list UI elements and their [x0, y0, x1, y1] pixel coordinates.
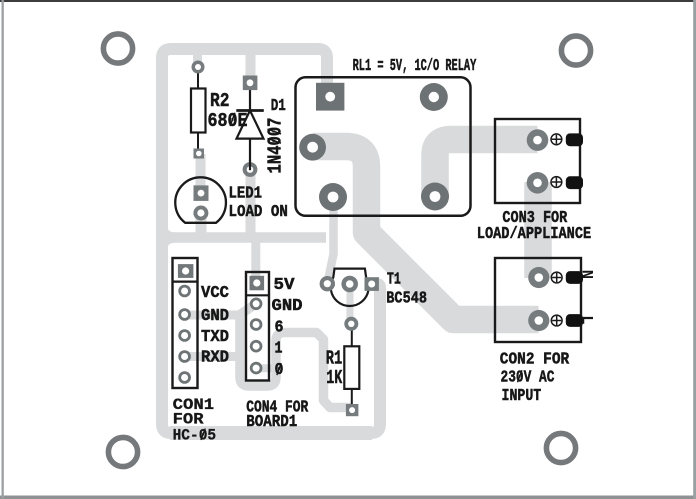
pad CON1 pin1 square	[173, 264, 198, 282]
wire: CON4 GND down around to R1 bottom pad	[240, 304, 351, 408]
pad relay mid-left COM	[299, 134, 326, 161]
svg-text:5V: 5V	[274, 275, 295, 294]
pad CON1 TXD	[178, 329, 191, 342]
pad relay top-right	[420, 83, 448, 111]
wire: CON4 pad 0 stub	[256, 364, 275, 372]
pad T1 collector	[320, 276, 335, 291]
wire: wide trace relay COM pad to CON2 L pad	[313, 147, 539, 320]
wire: wide trace relay NO pad to CON3 top pad	[435, 140, 538, 199]
wire: ground loop T1 emitter around board to relay coil pad	[162, 49, 380, 433]
pad R2 bottom	[194, 149, 205, 159]
pad CON4 pin1	[250, 340, 263, 353]
svg-text:HC-05: HC-05	[173, 427, 217, 445]
pad relay coil square	[316, 83, 344, 111]
svg-text:RXD: RXD	[201, 348, 229, 367]
svg-text:1K: 1K	[326, 367, 342, 389]
connector CON2 outline	[495, 258, 581, 342]
tab CON2 L	[566, 314, 583, 327]
svg-text:TXD: TXD	[201, 327, 229, 346]
svg-text:BOARD1: BOARD1	[246, 412, 297, 431]
screw CON2 N	[551, 272, 562, 283]
svg-text:BC548: BC548	[386, 289, 427, 308]
wire: CON1 RXD pad to vertical	[185, 352, 240, 361]
pad CON4 GND	[250, 298, 263, 311]
pad CON4 pin6	[250, 318, 263, 331]
mounting hole bottom-left	[108, 437, 137, 466]
wire: R2 bottom pad to LED1 anode pad	[196, 154, 206, 190]
mounting hole top-left	[103, 34, 132, 63]
connector CON1 outline	[173, 258, 198, 388]
screw CON3 top	[551, 134, 562, 145]
label HC-05	[173, 427, 217, 445]
pad CON3 top	[527, 129, 549, 151]
pad CON2 N	[528, 267, 549, 288]
svg-text:R2: R2	[210, 90, 230, 112]
wire: junction down to CON4 5V pad	[251, 240, 260, 283]
wire: LED1 ring pad down to junction	[196, 213, 207, 237]
tab CON2 N	[566, 271, 583, 284]
pad T1 emitter	[365, 277, 379, 291]
label pin 0	[275, 360, 284, 379]
connector CON3 outline	[495, 119, 580, 203]
resistor R2	[191, 71, 206, 150]
svg-text:1N4007: 1N4007	[265, 118, 287, 174]
mounting hole bottom-right	[546, 433, 575, 462]
svg-text:1: 1	[275, 339, 283, 358]
relay RL1	[296, 77, 471, 216]
pad relay bottom-left	[319, 183, 347, 211]
svg-text:GND: GND	[201, 306, 229, 325]
transistor T1	[331, 269, 369, 306]
label 680E	[208, 110, 248, 132]
pad CON4 5V square	[246, 276, 269, 296]
screw CON2 L	[551, 315, 562, 326]
mounting hole top-right	[561, 36, 590, 65]
wire: horizontal junction to D1 anode pad	[162, 232, 326, 243]
label N	[578, 270, 596, 279]
svg-text:VCC: VCC	[201, 283, 229, 302]
pad D1 cathode	[243, 76, 258, 91]
svg-text:LED1: LED1	[229, 184, 263, 203]
pad CON1 pin6	[178, 371, 191, 384]
pad CON1 VCC	[178, 285, 191, 298]
svg-text:230V AC: 230V AC	[501, 368, 555, 387]
tab CON3 bottom	[566, 176, 583, 189]
connector CON4 outline	[246, 272, 269, 381]
pad relay bottom-right NO	[421, 183, 449, 211]
svg-text:RL1 = 5V, 1C/O RELAY: RL1 = 5V, 1C/O RELAY	[353, 56, 477, 75]
pad D1 anode	[243, 160, 258, 177]
pad CON3 bottom	[527, 172, 549, 194]
svg-text:CON2 FOR: CON2 FOR	[500, 350, 569, 369]
pad CON2 L	[528, 310, 549, 331]
LED LED1	[175, 177, 226, 222]
pad R1 top	[344, 317, 358, 331]
svg-text:LOAD/APPLIANCE: LOAD/APPLIANCE	[477, 224, 591, 243]
svg-text:D1: D1	[271, 96, 286, 115]
pad CON4 pin0	[250, 362, 263, 375]
pad CON1 GND	[178, 308, 191, 321]
wire: ground loop bottom bar overlay	[170, 426, 372, 440]
pad R2 top	[192, 61, 205, 74]
wire: stub top bar to R2 top pad	[193, 51, 202, 64]
svg-text:N: N	[578, 270, 596, 279]
label 1N4007	[265, 118, 287, 174]
svg-text:680E: 680E	[208, 110, 248, 132]
svg-text:L: L	[578, 315, 596, 324]
label L	[578, 315, 596, 324]
pad LED1 cathode	[193, 206, 208, 221]
wire: wide trace CON3 bottom pad to CON2 N pad	[524, 182, 552, 278]
pad LED1 anode	[194, 185, 209, 201]
svg-text:LOAD ON: LOAD ON	[229, 202, 288, 221]
resistor R1	[344, 329, 359, 406]
wire: CON1 GND pad to vertical	[185, 311, 240, 320]
diode D1	[236, 88, 263, 161]
tab CON3 top	[566, 133, 583, 146]
label 230V AC	[501, 368, 555, 387]
pad T1 base	[341, 276, 358, 293]
svg-text:INPUT: INPUT	[502, 386, 542, 405]
wire: relay pad to T1 collector pad	[328, 197, 334, 283]
pad CON1 RXD	[178, 350, 191, 363]
screw CON3 bottom	[551, 177, 562, 188]
pad R1 bottom	[346, 404, 359, 416]
svg-text:6: 6	[275, 318, 284, 337]
wire: stub top bar to D1 cathode pad	[246, 51, 256, 80]
svg-text:GND: GND	[272, 296, 303, 315]
wire: T1 base pad to R1 top pad	[347, 288, 354, 321]
svg-text:T1: T1	[387, 270, 401, 289]
